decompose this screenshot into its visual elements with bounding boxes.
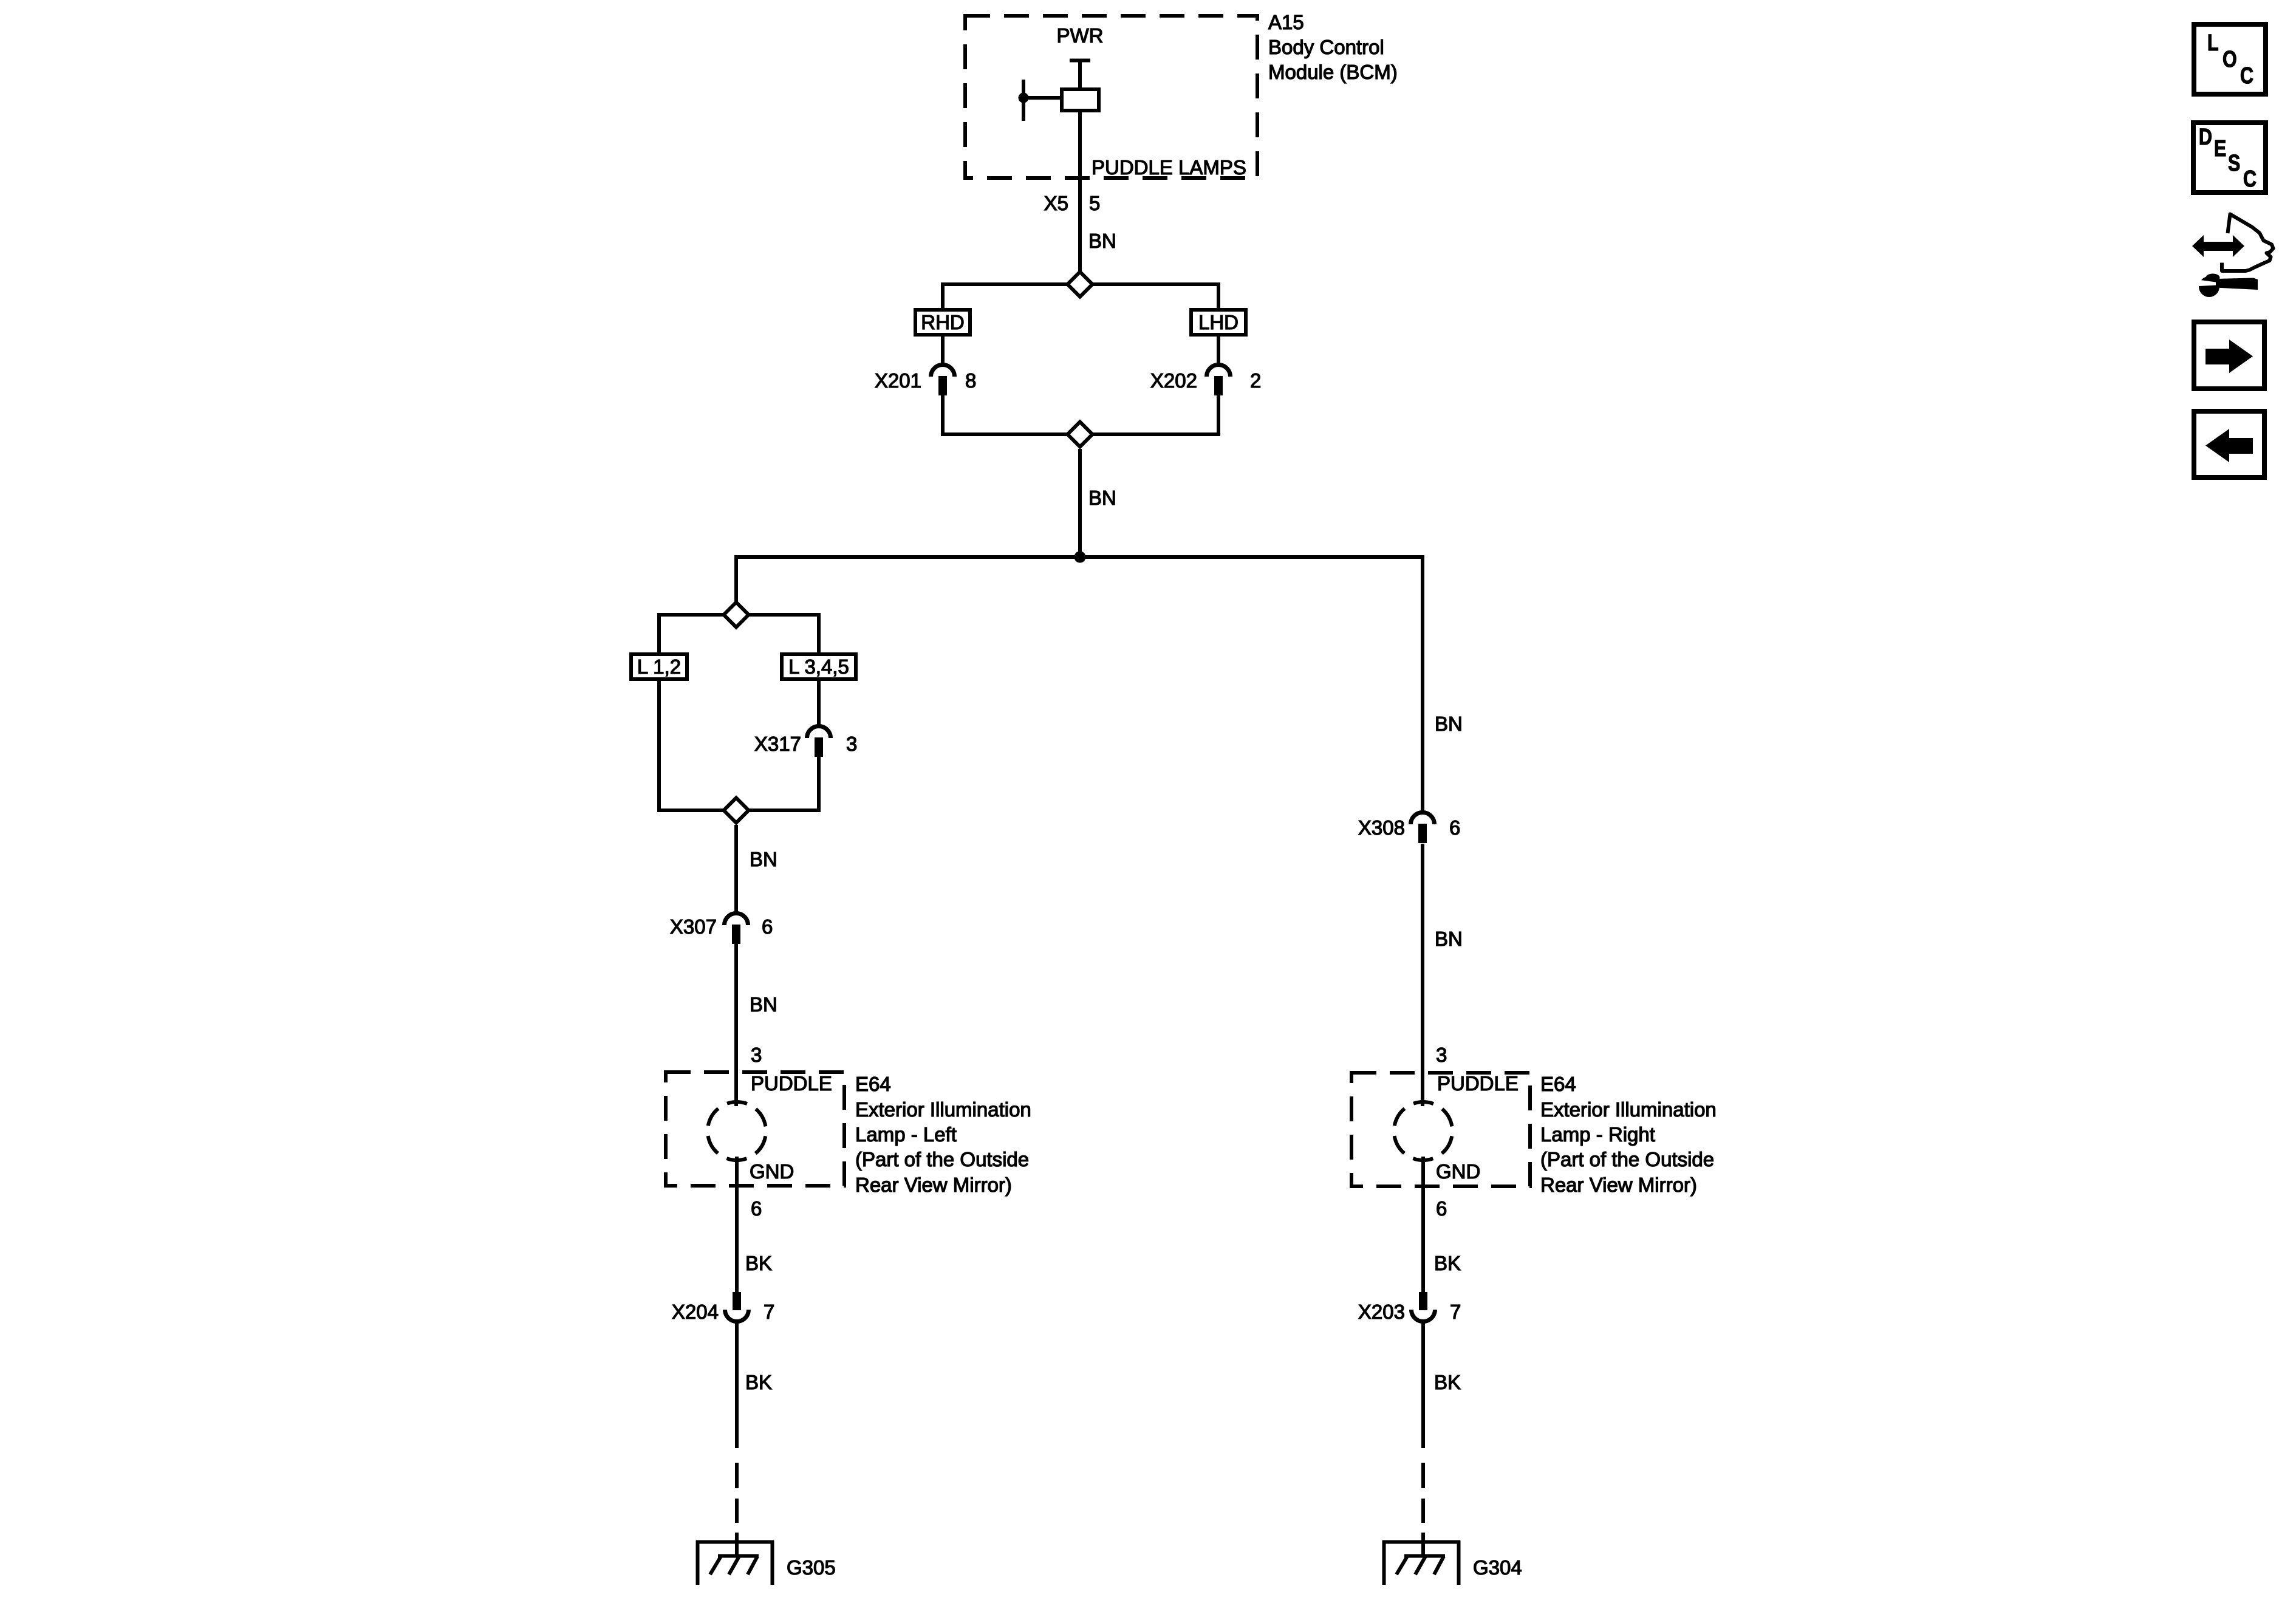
svg-text:L: L <box>2207 30 2219 56</box>
connector X201 pin 8 <box>931 365 955 396</box>
connector X203 pin 7 <box>1412 1292 1435 1322</box>
svg-text:BK: BK <box>1434 1252 1461 1274</box>
splice split L1,2 / L3,4,5 <box>659 613 819 654</box>
splice merge wire left <box>659 808 819 812</box>
svg-text:BN: BN <box>750 993 777 1016</box>
svg-text:BN: BN <box>1435 928 1463 950</box>
wire label BN <box>1435 713 1463 735</box>
svg-text:GND: GND <box>750 1160 794 1183</box>
svg-text:BK: BK <box>745 1252 772 1274</box>
splice diamond merge <box>1068 422 1093 447</box>
svg-text:BN: BN <box>750 848 777 870</box>
svg-text:L 3,4,5: L 3,4,5 <box>788 655 849 678</box>
wire lamp left to X204 <box>735 1157 739 1293</box>
junction tee left-right <box>736 552 1423 563</box>
label X308 6 <box>1358 816 1460 839</box>
wire X317 to merge <box>817 757 821 812</box>
svg-text:RHD: RHD <box>921 311 965 333</box>
label X202 2 <box>1150 369 1261 392</box>
option box RHD <box>915 310 970 335</box>
wire label BK <box>745 1371 772 1393</box>
svg-text:BN: BN <box>1088 230 1116 252</box>
connector X202 pin 2 <box>1207 365 1231 396</box>
svg-text:C: C <box>2243 166 2257 192</box>
ground G305 symbol <box>696 1540 774 1585</box>
module A15 BCM dashed box <box>965 16 1257 178</box>
wire LHD to X202 <box>1217 337 1220 364</box>
label G305 <box>787 1556 836 1579</box>
option box LHD <box>1191 310 1246 335</box>
label E64 Exterior Illumination Lamp - Left <box>855 1073 1031 1196</box>
svg-text:8: 8 <box>965 369 976 392</box>
svg-text:X203: X203 <box>1358 1301 1405 1323</box>
svg-text:6: 6 <box>1449 816 1460 839</box>
wire down to X307 <box>734 825 738 914</box>
option box L 3,4,5 <box>782 654 856 679</box>
wire label BN <box>1088 487 1116 509</box>
ground G304 symbol <box>1382 1540 1460 1585</box>
wire X204 down BK <box>735 1323 739 1448</box>
svg-text:PUDDLE LAMPS: PUDDLE LAMPS <box>1092 156 1246 179</box>
svg-text:LHD: LHD <box>1198 311 1239 333</box>
svg-text:BK: BK <box>1434 1371 1461 1393</box>
svg-text:Lamp - Left: Lamp - Left <box>855 1123 957 1146</box>
svg-text:(Part of the Outside: (Part of the Outside <box>855 1148 1029 1171</box>
wire L3,4,5 to X317 <box>817 681 821 726</box>
svg-text:6: 6 <box>751 1197 762 1220</box>
wire label BK <box>1434 1252 1461 1274</box>
svg-text:E64: E64 <box>855 1073 891 1095</box>
svg-text:X5: X5 <box>1044 192 1068 214</box>
lamp E64 left dashed box <box>666 1072 844 1186</box>
pin label PUDDLE <box>751 1072 832 1095</box>
svg-text:3: 3 <box>751 1044 762 1066</box>
svg-text:PWR: PWR <box>1057 24 1104 47</box>
svg-text:O: O <box>2223 47 2237 72</box>
connector label X5 pin 5 <box>1044 192 1101 214</box>
svg-text:D: D <box>2199 125 2212 150</box>
connector X317 pin 3 <box>807 726 831 757</box>
wire label BN <box>1435 928 1463 950</box>
label X317 3 <box>754 733 857 755</box>
svg-text:Lamp - Right: Lamp - Right <box>1540 1123 1655 1146</box>
svg-text:Body Control: Body Control <box>1268 36 1384 58</box>
dashed wire to ground right <box>1421 1463 1425 1556</box>
svg-text:7: 7 <box>764 1301 774 1323</box>
svg-text:Exterior Illumination: Exterior Illumination <box>855 1098 1031 1121</box>
wire X201 to merge <box>941 395 945 436</box>
svg-text:Module (BCM): Module (BCM) <box>1268 61 1398 83</box>
pin label PUDDLE <box>1437 1072 1519 1095</box>
svg-text:E64: E64 <box>1540 1073 1576 1095</box>
icon vehicle outline <box>2222 214 2274 272</box>
svg-text:7: 7 <box>1450 1301 1461 1323</box>
svg-text:BN: BN <box>1435 713 1463 735</box>
label X201 8 <box>875 369 976 392</box>
svg-text:C: C <box>2240 63 2253 89</box>
svg-text:GND: GND <box>1436 1160 1480 1183</box>
svg-text:X202: X202 <box>1150 369 1197 392</box>
svg-text:PUDDLE: PUDDLE <box>1437 1072 1519 1095</box>
svg-text:X204: X204 <box>672 1301 719 1323</box>
connector X308 pin 6 <box>1411 813 1435 844</box>
svg-text:6: 6 <box>1436 1197 1447 1220</box>
splice split wire RHD/LHD <box>943 282 1218 310</box>
svg-text:X201: X201 <box>875 369 921 392</box>
pin label GND <box>750 1160 794 1183</box>
wire RHD to X201 <box>941 337 945 364</box>
svg-text:BK: BK <box>745 1371 772 1393</box>
label E64 Exterior Illumination Lamp - Right <box>1540 1073 1717 1196</box>
label A15 Body Control Module (BCM) <box>1268 11 1398 83</box>
pin label 6 <box>751 1197 762 1220</box>
pin label GND <box>1436 1160 1480 1183</box>
splice merge wire <box>943 432 1218 436</box>
label PUDDLE LAMPS <box>1092 156 1246 179</box>
svg-text:(Part of the Outside: (Part of the Outside <box>1540 1148 1714 1171</box>
pin label 6 <box>1436 1197 1447 1220</box>
lamp bulb right dashed circle <box>1394 1102 1452 1160</box>
icon arrow next box <box>2194 322 2264 389</box>
wire L1,2 to merge <box>657 681 661 812</box>
wire X202 to merge <box>1217 395 1220 436</box>
svg-text:Rear View Mirror): Rear View Mirror) <box>855 1174 1012 1196</box>
splice diamond top <box>1068 272 1093 297</box>
svg-text:2: 2 <box>1250 369 1261 392</box>
icon wrench <box>2194 274 2258 298</box>
wire label BN <box>1088 230 1116 252</box>
label X204 7 <box>672 1301 774 1323</box>
relay coil K in BCM <box>1062 89 1099 111</box>
svg-text:G305: G305 <box>787 1556 836 1579</box>
svg-text:G304: G304 <box>1473 1556 1522 1579</box>
svg-text:Exterior Illumination: Exterior Illumination <box>1540 1098 1717 1121</box>
connector X204 pin 7 <box>725 1292 749 1322</box>
icon arrow back box <box>2194 411 2264 477</box>
icon LOC box <box>2194 24 2266 94</box>
svg-text:3: 3 <box>1436 1044 1447 1066</box>
svg-text:L 1,2: L 1,2 <box>637 655 681 678</box>
trunk wire BN down to junction <box>1078 449 1082 557</box>
svg-text:BN: BN <box>1088 487 1116 509</box>
svg-text:X308: X308 <box>1358 816 1405 839</box>
left branch wire to splice <box>734 555 738 601</box>
svg-text:A15: A15 <box>1268 11 1304 33</box>
wire label BK <box>1434 1371 1461 1393</box>
lamp E64 right dashed box <box>1351 1073 1530 1186</box>
svg-text:6: 6 <box>762 915 773 938</box>
svg-text:PUDDLE: PUDDLE <box>751 1072 832 1095</box>
splice diamond left top <box>724 603 749 627</box>
wire from coil through X5 pin 5 <box>1078 112 1082 271</box>
svg-text:S: S <box>2228 151 2240 176</box>
svg-text:X307: X307 <box>670 915 717 938</box>
wire X308 to lamp right <box>1421 844 1424 1106</box>
dashed wire to ground left <box>735 1463 739 1556</box>
pin label 3 <box>1436 1044 1447 1066</box>
svg-text:3: 3 <box>846 733 857 755</box>
wire label BK <box>745 1252 772 1274</box>
pin label 3 <box>751 1044 762 1066</box>
pin label PWR <box>1057 24 1104 47</box>
wire label BN <box>750 993 777 1016</box>
svg-text:5: 5 <box>1089 192 1100 214</box>
option box L 1,2 <box>631 654 687 679</box>
relay contact in BCM <box>1070 60 1090 89</box>
svg-text:X317: X317 <box>754 733 801 755</box>
wire X307 to lamp left <box>734 944 738 1106</box>
wire lamp right to X203 <box>1421 1157 1425 1293</box>
label G304 <box>1473 1556 1522 1579</box>
splice diamond left merge <box>724 798 749 823</box>
icon vehicle double-arrow <box>2192 235 2244 257</box>
coil drive stub and junction dot <box>1019 80 1062 121</box>
connector X307 pin 6 <box>725 914 748 945</box>
wire label BN <box>750 848 777 870</box>
svg-text:Rear View Mirror): Rear View Mirror) <box>1540 1174 1697 1196</box>
wire X203 down BK <box>1421 1323 1425 1448</box>
svg-text:E: E <box>2214 136 2226 162</box>
icon DESC box <box>2193 123 2266 193</box>
label X203 7 <box>1358 1301 1461 1323</box>
lamp bulb left dashed circle <box>708 1102 766 1160</box>
right branch wire BN to X308 <box>1421 555 1424 812</box>
label X307 6 <box>670 915 773 938</box>
